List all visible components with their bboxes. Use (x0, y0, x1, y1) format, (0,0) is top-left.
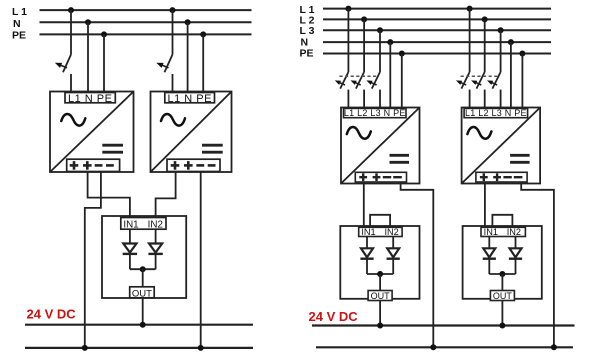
PS4 output polarity marks + + − − (480, 173, 523, 181)
junction on PE bus (PS2) (200, 31, 206, 37)
junction on L2 bus (PS3) (361, 16, 367, 22)
terminal label IN2 (RM2) (507, 227, 521, 237)
wire: cathode join (130, 268, 156, 270)
wire: junction to OUT terminal (142, 269, 144, 287)
PS1 AC input terminal block (65, 93, 115, 103)
terminal label OUT (RM1) (371, 291, 391, 301)
wire: IN1 to diode D1 (129, 229, 131, 243)
net label PE (right system) (300, 48, 314, 60)
junction RM2 OUT on +24 V rail (499, 323, 505, 329)
PS3 output polarity marks + + − − (359, 173, 402, 181)
junction on L3 bus (PS3) (377, 27, 383, 33)
wire: breaker L1 to PSU terminal (PS4) (469, 90, 471, 109)
wire: N drop to PSU (PS3) (389, 42, 391, 108)
junction PS3 − on 0 V rail (430, 344, 436, 350)
wire: L1 bus (right) (323, 8, 551, 10)
breaker trip link (dashed, PS4) (461, 75, 498, 77)
net label L1 (right system) (300, 4, 315, 16)
wire: breaker L2 to PSU terminal (PS4) (484, 90, 486, 109)
svg-text:IN2: IN2 (384, 227, 398, 237)
wire: OUT to +24 V rail (RM1) (379, 301, 381, 326)
PS3 terminal labels L1 L2 L3 N PE (344, 108, 406, 118)
wire: IN2 to diode D2 (RM2) (515, 237, 517, 249)
wire: IN2 to diode D2 (155, 229, 157, 243)
PS3 DC output terminal block (355, 172, 406, 182)
wire: cathode join (RM1) (367, 273, 393, 275)
junction on PE bus (PS3) (399, 51, 405, 57)
PS1 AC symbol (61, 114, 85, 126)
wire: junction to OUT (RM2) (501, 274, 503, 291)
wire: IN1–IN2 parallel bridge (RM1) (370, 215, 390, 228)
PS4 AC/DC separator (462, 108, 539, 183)
PS3 AC input terminal block (344, 108, 407, 117)
wire: L1 bus (left) (40, 9, 252, 11)
PS4 terminal labels L1 L2 L3 N PE (465, 108, 527, 118)
wire: IN1 to diode D1 (RM1) (366, 237, 368, 249)
net label L1 (left system) (12, 6, 27, 18)
junction PS2 − on 0 V rail (198, 345, 204, 351)
switch S1 (disconnect, PS1) (55, 55, 71, 73)
PS1 terminal labels L1 N PE (68, 93, 112, 105)
wire: PS1 − output to 0 V rail (85, 172, 101, 348)
junction on N bus (PS4) (508, 39, 514, 45)
wire: PE drop to PSU (PS4) (521, 54, 523, 109)
terminal label IN2 (RM1) (384, 227, 398, 237)
wire: IN2 to diode D2 (RM1) (392, 237, 394, 249)
power supply PS1 enclosure (50, 92, 134, 173)
PS2 output polarity marks + + − − (171, 161, 216, 170)
junction on N bus (PS2) (185, 19, 191, 25)
wire: diode D2 cathode down (RM1) (392, 259, 394, 274)
wire: N drop to PS2 (187, 22, 189, 93)
PS1 AC/DC separator (51, 92, 134, 172)
svg-text:IN1: IN1 (123, 220, 138, 231)
wire: breaker L2 to PSU terminal (PS3) (363, 90, 365, 109)
PS3 AC symbol (347, 127, 371, 139)
junction on L1 bus (PS1) (68, 7, 74, 13)
wire: breaker L3 to PSU terminal (PS3) (379, 90, 381, 109)
junction on PE bus (PS1) (101, 31, 107, 37)
terminal label IN1 (RM1) (361, 227, 375, 237)
svg-text:L1 L2 L3 N PE: L1 L2 L3 N PE (465, 108, 527, 118)
terminal label OUT (left) (132, 288, 152, 299)
junction on N bus (PS3) (387, 39, 393, 45)
junction on L1 bus (PS2) (170, 7, 176, 13)
wire: N drop to PS1 (87, 22, 89, 93)
wire: N drop to PSU (PS4) (510, 42, 512, 108)
3-pole circuit breaker (PS3) (335, 72, 380, 89)
wire: L3 drop to breaker (PS3) (379, 30, 381, 72)
wire: IN1 to diode D1 (RM2) (488, 237, 490, 249)
net label N (left system) (13, 18, 21, 30)
wire: 0 V rail (left) (25, 347, 253, 349)
power supply PS4 enclosure (462, 108, 540, 184)
net label N (right system) (301, 37, 309, 49)
wire: PE bus (left) (40, 33, 252, 35)
junction on L1 bus (PS4) (467, 6, 473, 12)
wire: N bus (right) (323, 41, 551, 43)
terminal label IN1 (RM2) (484, 227, 498, 237)
junction PS4 − on 0 V rail (551, 344, 557, 350)
wire: PS1 + output to module IN1 (88, 172, 130, 219)
wire: L1 drop to breaker (PS3) (347, 9, 349, 72)
PS2 DC symbol (202, 145, 223, 152)
wire: junction to OUT (RM1) (379, 274, 381, 291)
terminal label IN2 (left) (148, 220, 163, 231)
PS1 DC symbol (102, 145, 123, 152)
diode D1 (left module) (123, 244, 137, 254)
diode D1 (RM2) (483, 248, 496, 258)
module RM1 output terminal block OUT (368, 291, 392, 301)
svg-text:N: N (13, 18, 21, 30)
wire: PE bus (right) (323, 53, 551, 55)
wire: PS3 + output to module IN1 (363, 182, 365, 228)
module RM1 input terminal block IN1 IN2 (359, 227, 402, 236)
net label 24 V DC (right) (309, 309, 359, 324)
wire: 0 V rail (right) (316, 346, 573, 348)
junction PS1 − on 0 V rail (82, 345, 88, 351)
svg-text:L 1: L 1 (12, 6, 27, 18)
terminal label IN1 (left) (123, 220, 138, 231)
terminal label OUT (RM2) (493, 291, 513, 301)
diode D2 (RM1) (387, 248, 400, 258)
power supply PS3 enclosure (341, 108, 420, 184)
wire: IN1–IN2 parallel bridge (RM2) (492, 215, 512, 228)
wire: PS4 − output to 0 V rail (521, 182, 554, 347)
svg-text:24 V DC: 24 V DC (309, 309, 359, 324)
junction on L3 bus (PS4) (498, 27, 504, 33)
PS4 DC output terminal block (476, 172, 527, 182)
wire: L2 drop to breaker (PS3) (363, 19, 365, 72)
junction of D1/D2 cathodes (140, 266, 146, 272)
module RM2 output terminal block OUT (490, 291, 514, 301)
junction of diode cathodes (RM1) (377, 271, 383, 277)
junction RM1 OUT on +24 V rail (377, 323, 383, 329)
wire: L3 bus (right) (323, 29, 551, 31)
PS1 DC output terminal block (67, 159, 120, 171)
wire: PS2 − output to 0 V rail (200, 172, 202, 348)
svg-text:PE: PE (12, 29, 26, 41)
net label 24 V DC (left) (27, 306, 77, 321)
PS2 AC symbol (161, 114, 185, 126)
svg-text:PE: PE (300, 48, 314, 60)
PS3 AC/DC separator (342, 108, 420, 183)
wire: PS3 − output to 0 V rail (401, 182, 434, 347)
svg-text:L 3: L 3 (300, 25, 315, 37)
svg-text:OUT: OUT (132, 288, 152, 299)
module input terminal block IN1 IN2 (left) (121, 218, 166, 230)
net label PE (left system) (12, 29, 26, 41)
junction of diode cathodes (RM2) (499, 271, 505, 277)
wire: L3 drop to breaker (PS4) (500, 30, 502, 72)
module output terminal block OUT (left) (130, 287, 155, 298)
junction on N bus (PS1) (85, 19, 91, 25)
redundancy module enclosure (left) (102, 216, 186, 298)
wire: cathode join (RM2) (489, 273, 515, 275)
wire: PS2 + output to module IN2 (156, 172, 176, 219)
breaker trip link (dashed, PS3) (339, 75, 377, 77)
wire: PE drop to PS1 (103, 34, 105, 93)
PS2 DC output terminal block (167, 159, 220, 171)
svg-text:24 V DC: 24 V DC (27, 306, 77, 321)
net label L2 (right system) (300, 15, 315, 27)
PS1 output polarity marks + + − − (70, 161, 114, 170)
wire: diode D2 cathode down (RM2) (515, 259, 517, 274)
net label L3 (right system) (300, 25, 315, 37)
PS2 terminal labels L1 N PE (167, 93, 211, 105)
wire: L2 bus (right) (323, 18, 551, 20)
wire: OUT to +24 V rail (142, 298, 144, 325)
PS3 DC symbol (390, 155, 410, 162)
wire: L1 drop to switch S1 (70, 10, 72, 54)
svg-text:L1 L2 L3 N PE: L1 L2 L3 N PE (344, 108, 406, 118)
wire: breaker L1 to PSU terminal (PS3) (347, 90, 349, 109)
svg-text:L1 N PE: L1 N PE (167, 93, 211, 105)
wire: N bus (left) (40, 21, 252, 23)
wire: breaker L3 to PSU terminal (PS4) (500, 90, 502, 109)
svg-text:OUT: OUT (493, 291, 513, 301)
diode D1 (RM1) (360, 248, 373, 258)
wire: PE drop to PS2 (202, 34, 204, 93)
PS4 DC symbol (510, 155, 529, 162)
PS2 AC/DC separator (151, 92, 231, 172)
switch S2 (disconnect, PS2) (156, 55, 172, 73)
redundancy module RM2 enclosure (463, 226, 542, 299)
module RM2 input terminal block IN1 IN2 (481, 227, 525, 236)
wire: PS4 + output to module IN1 (484, 182, 486, 228)
wire: switch S2 to PS2 L1 terminal (172, 74, 174, 93)
redundancy module RM1 enclosure (340, 226, 419, 299)
PS4 AC input terminal block (464, 108, 527, 117)
wire: diode D1 cathode down (RM1) (366, 259, 368, 274)
wire: diode D1 cathode down (129, 255, 131, 269)
wire: +24 V rail (left) (25, 324, 253, 326)
wire: diode D1 cathode down (RM2) (488, 259, 490, 274)
wire: L2 drop to breaker (PS4) (484, 19, 486, 72)
svg-text:IN2: IN2 (148, 220, 163, 231)
svg-text:OUT: OUT (371, 291, 391, 301)
diode D2 (RM2) (509, 248, 522, 258)
PS4 AC symbol (467, 127, 491, 139)
PS2 AC input terminal block (165, 93, 215, 103)
3-pole circuit breaker (PS4) (456, 72, 501, 89)
junction OUT on +24 V rail (left) (140, 322, 146, 328)
diode D2 (left module) (148, 244, 162, 254)
svg-text:IN1: IN1 (361, 227, 375, 237)
wire: diode D2 cathode down (155, 255, 157, 269)
svg-text:L1 N PE: L1 N PE (68, 93, 112, 105)
junction on PE bus (PS4) (519, 51, 525, 57)
junction on L2 bus (PS4) (482, 16, 488, 22)
wire: L1 drop to switch S2 (172, 10, 174, 54)
junction on L1 bus (PS3) (345, 6, 351, 12)
svg-text:IN1: IN1 (484, 227, 498, 237)
power supply PS2 enclosure (151, 92, 232, 173)
wire: OUT to +24 V rail (RM2) (501, 301, 503, 326)
wire: PE drop to PSU (PS3) (401, 54, 403, 109)
wire: +24 V rail (right) (312, 324, 575, 326)
wire: switch S1 to PS1 L1 terminal (70, 74, 72, 93)
svg-text:IN2: IN2 (507, 227, 521, 237)
wire: L1 drop to breaker (PS4) (469, 9, 471, 72)
